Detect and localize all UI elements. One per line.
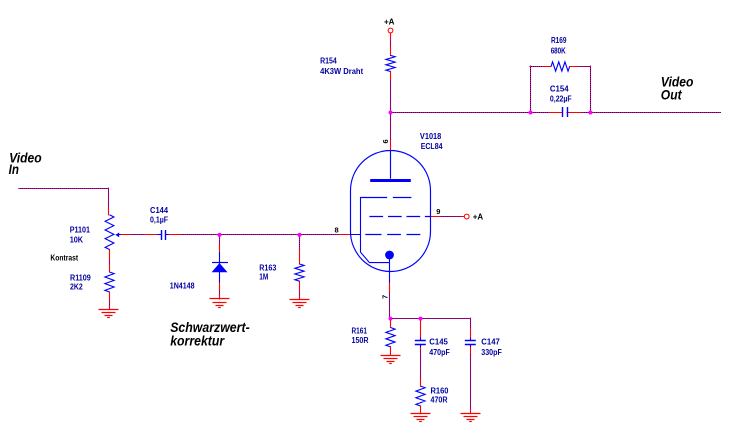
svg-text:7: 7: [381, 295, 390, 299]
svg-text:Out: Out: [661, 88, 682, 103]
svg-text:8: 8: [335, 226, 339, 235]
svg-text:korrektur: korrektur: [170, 333, 225, 348]
svg-text:In: In: [9, 162, 19, 177]
svg-text:4K3W Draht: 4K3W Draht: [320, 67, 363, 76]
svg-text:9: 9: [436, 207, 440, 216]
svg-text:R154: R154: [320, 57, 337, 66]
svg-text:1N4148: 1N4148: [170, 282, 195, 291]
svg-text:C147: C147: [481, 338, 500, 347]
svg-text:P1101: P1101: [70, 226, 91, 235]
svg-text:C145: C145: [429, 338, 448, 347]
svg-text:330pF: 330pF: [481, 348, 502, 357]
svg-text:R160: R160: [431, 387, 449, 396]
svg-text:+A: +A: [473, 213, 484, 222]
svg-text:R1109: R1109: [70, 273, 91, 282]
svg-text:1M: 1M: [259, 273, 268, 282]
svg-text:2K2: 2K2: [70, 283, 83, 292]
svg-text:10K: 10K: [70, 236, 84, 245]
svg-text:C154: C154: [550, 85, 569, 94]
svg-text:470pF: 470pF: [429, 348, 450, 357]
svg-text:150R: 150R: [352, 336, 369, 345]
svg-text:Kontrast: Kontrast: [50, 254, 78, 263]
svg-text:470R: 470R: [431, 396, 448, 405]
svg-text:R169: R169: [551, 36, 567, 45]
svg-text:0,22µF: 0,22µF: [550, 95, 572, 104]
svg-text:+A: +A: [384, 18, 395, 27]
svg-text:R163: R163: [259, 263, 276, 272]
svg-text:C144: C144: [150, 206, 169, 215]
svg-text:6: 6: [381, 139, 390, 143]
svg-text:V1018: V1018: [420, 132, 442, 141]
svg-text:680K: 680K: [551, 47, 566, 56]
svg-text:0,1µF: 0,1µF: [150, 216, 168, 225]
svg-text:R161: R161: [352, 327, 368, 336]
svg-text:ECL84: ECL84: [421, 142, 443, 151]
